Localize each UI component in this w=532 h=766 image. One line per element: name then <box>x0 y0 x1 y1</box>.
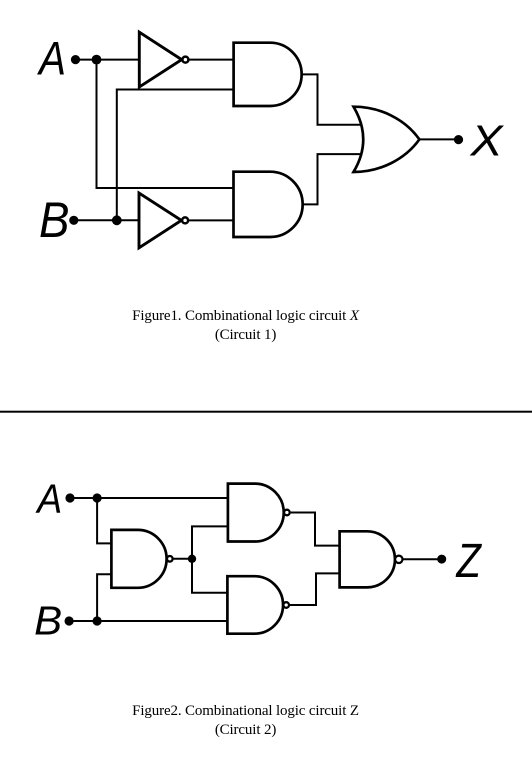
node B terminal dot <box>69 216 78 225</box>
wire G3 output to node X <box>419 138 455 140</box>
wire A to inverter U1 <box>76 59 141 61</box>
node A2 junction dot <box>93 493 102 502</box>
NAND gate G6 body <box>227 576 283 634</box>
svg-text:A: A <box>34 476 62 522</box>
wire node A down to AND G2 input 1 <box>97 60 234 188</box>
wire node A2 down to NAND G4 input 1 <box>97 498 111 543</box>
svg-text:X: X <box>469 117 504 166</box>
svg-text:A: A <box>36 32 66 85</box>
wire G1 output to OR G3 input 1 <box>302 74 362 124</box>
svg-text:B: B <box>34 598 62 644</box>
AND gate G1 <box>234 43 302 106</box>
node A junction dot <box>92 55 102 65</box>
node Z dot <box>437 555 446 564</box>
NAND gate G5 body <box>228 484 284 542</box>
separator line <box>0 411 532 413</box>
wire B2 to NAND G6 input 2 <box>69 620 228 622</box>
node N1 junction dot <box>188 555 196 563</box>
wire node B2 up to NAND G4 input 2 <box>97 574 111 621</box>
wire N1 down to NAND G6 input 1 <box>192 559 228 593</box>
NAND gate G5 bubble <box>284 510 290 516</box>
NAND gate G6 bubble <box>283 602 289 608</box>
svg-text:Z: Z <box>456 535 483 588</box>
node A2 terminal dot <box>65 493 74 502</box>
wire G5 output to NAND G7 input 1 <box>291 513 340 546</box>
NAND gate G4 bubble <box>167 556 173 562</box>
wire A2 to NAND G5 input 1 <box>70 497 228 499</box>
NAND gate G7 bubble <box>395 556 402 563</box>
wire U1 output to AND G1 input 1 <box>189 59 234 61</box>
NAND gate G4 body <box>111 530 166 588</box>
wire G2 output to OR G3 input 2 <box>303 154 362 204</box>
node A terminal dot <box>71 55 80 64</box>
inverter U2 triangle <box>139 193 181 248</box>
inverter U1 triangle <box>139 32 181 87</box>
wire node B up to AND G1 input 2 <box>117 90 234 221</box>
inverter U1 bubble <box>182 57 188 63</box>
caption figure 1 <box>0 307 491 344</box>
node B2 terminal dot <box>65 616 74 625</box>
node X dot <box>454 135 463 144</box>
svg-text:B: B <box>39 192 70 248</box>
NAND gate G7 body <box>340 531 395 587</box>
wire N1 up to NAND G5 input 2 <box>192 526 228 558</box>
inverter U2 bubble <box>182 217 188 223</box>
OR gate G3 <box>354 107 420 172</box>
wire B to inverter U2 <box>74 219 140 221</box>
wire G6 output to NAND G7 input 2 <box>290 573 340 605</box>
node B2 junction dot <box>93 616 102 625</box>
AND gate G2 <box>234 172 303 237</box>
wire G4 output to node N1 <box>174 558 193 560</box>
caption figure 2 <box>0 702 491 739</box>
wire U2 output to AND G2 input 2 <box>189 219 234 221</box>
node B junction dot <box>112 215 122 225</box>
wire G7 output to node Z <box>403 558 442 560</box>
